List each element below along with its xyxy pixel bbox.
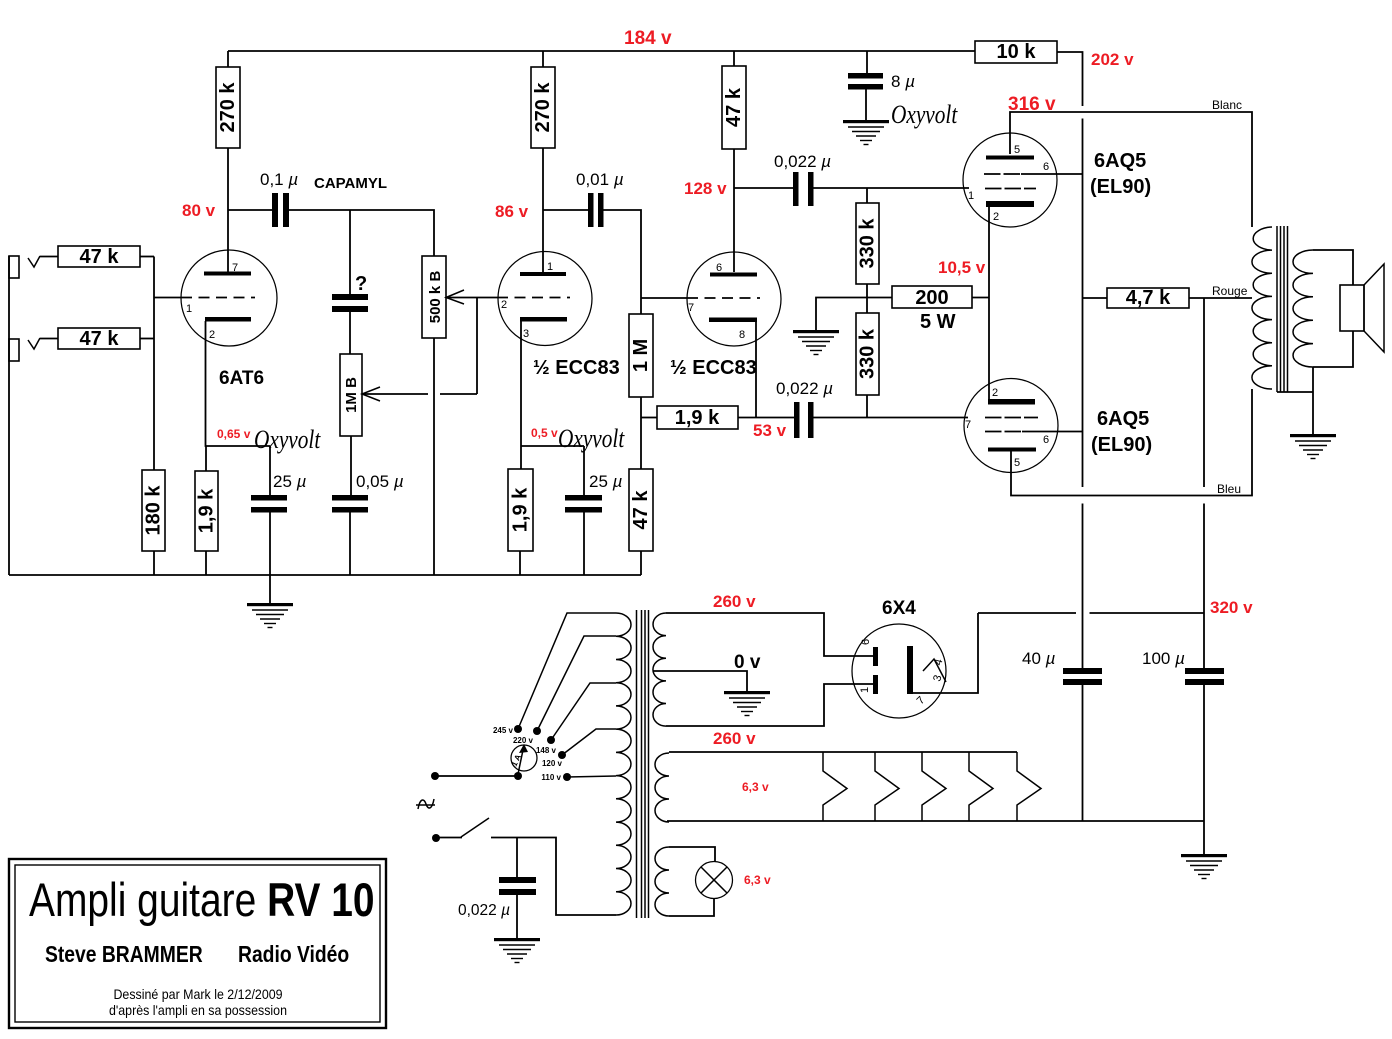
ground bias [793, 330, 839, 355]
svg-text:6: 6 [1043, 434, 1049, 446]
wire J2 to R3 [40, 338, 58, 340]
wire R15 to screen rail [1057, 52, 1083, 106]
wiper arrow P1 [446, 290, 464, 304]
svg-text:0,01 µ: 0,01 µ [576, 170, 624, 189]
plate V4 [986, 156, 1034, 160]
wire bias ground link [816, 298, 892, 331]
svg-text:1: 1 [968, 190, 974, 202]
svg-text:6,3 v: 6,3 v [742, 780, 769, 794]
cathode V6 [907, 646, 913, 694]
wire R10 to 53v node [738, 417, 794, 419]
ground output transformer [1290, 434, 1336, 459]
wire HV top 260v to 6X4 plate [666, 613, 873, 656]
svg-text:0,022 µ: 0,022 µ [774, 152, 831, 171]
svg-text:2: 2 [992, 387, 998, 399]
wire screen rail [1082, 119, 1084, 488]
tube V5 6AQ5 lower [964, 379, 1058, 473]
svg-text:0,1 µ: 0,1 µ [260, 170, 298, 189]
wire lamp top [669, 847, 715, 862]
svg-text:25 µ: 25 µ [589, 472, 623, 491]
svg-text:1M B: 1M B [343, 377, 360, 413]
svg-text:0,05 µ: 0,05 µ [356, 472, 404, 491]
svg-text:53 v: 53 v [753, 421, 787, 440]
wire V3 plate to 128v node [733, 149, 735, 272]
svg-text:1: 1 [547, 261, 553, 273]
svg-text:Ampli guitare RV 10: Ampli guitare RV 10 [29, 874, 375, 926]
capacitor C12 0,022u mains [516, 838, 518, 878]
wiper arrow P2 [362, 387, 380, 401]
svg-text:245 v: 245 v [493, 726, 514, 735]
heater arrow 1 [823, 752, 847, 821]
wire plate V1 to 80v node [227, 148, 229, 272]
svg-text:100 µ: 100 µ [1142, 649, 1185, 668]
wire C1 output to 500k pot top [289, 210, 434, 256]
svg-text:2: 2 [209, 329, 215, 341]
cathode V3 [709, 318, 757, 323]
wire heater rail top [669, 751, 1017, 753]
potentiometer P1 500k B volume [422, 256, 446, 338]
svg-text:0,022 µ: 0,022 µ [776, 379, 833, 398]
svg-text:8 µ: 8 µ [891, 72, 915, 91]
resistor R13 330k grid leak V5 [856, 313, 879, 395]
svg-text:1,9 k: 1,9 k [675, 407, 720, 429]
wire mains line [435, 775, 518, 777]
wire plate V2 to 86v node [542, 148, 544, 272]
transformer T1 pilot lamp winding [655, 847, 669, 916]
svg-text:½ ECC83: ½ ECC83 [670, 357, 757, 379]
grid V3 dashed [687, 297, 760, 299]
svg-text:3: 3 [523, 328, 529, 340]
svg-text:200: 200 [915, 287, 948, 309]
svg-text:0,5 v: 0,5 v [531, 426, 558, 440]
pilot lamp LP1 [696, 862, 733, 899]
wire switch to primary bottom [491, 838, 616, 916]
svg-text:Oxyvolt: Oxyvolt [891, 101, 959, 129]
capacitor C5 0,01u coupling [543, 209, 588, 211]
ground C9 [865, 89, 867, 120]
svg-text:330 k: 330 k [857, 328, 879, 379]
svg-text:Rouge: Rouge [1212, 284, 1248, 298]
resistor R14 200 ohm 5W cathode [892, 286, 972, 308]
svg-text:1 M: 1 M [630, 339, 652, 372]
svg-text:8: 8 [739, 329, 745, 341]
tube V6 6X4 rectifier [852, 624, 946, 718]
heater arrow 4 [969, 752, 993, 821]
resistor R12 330k grid leak V4 [866, 188, 868, 203]
resistor R4 180k grid leak [142, 470, 165, 551]
wire tap 120v [562, 729, 616, 755]
svg-text:6: 6 [1043, 161, 1049, 173]
svg-text:270 k: 270 k [532, 82, 554, 133]
svg-text:1: 1 [859, 687, 871, 693]
wire R16 to Rouge center tap [1189, 297, 1252, 299]
wire tap 110v [567, 776, 616, 777]
grid V2 dashed [497, 297, 570, 299]
tube V2 half ECC83 [498, 252, 592, 346]
svg-text:1,9 k: 1,9 k [510, 487, 532, 532]
svg-text:202 v: 202 v [1091, 50, 1134, 69]
AC source symbol [416, 804, 435, 806]
wire secondary to speaker [1313, 250, 1353, 285]
svg-text:Dessiné par Mark le 2/12/2009: Dessiné par Mark le 2/12/2009 [113, 987, 282, 1003]
wire C8 to V4 grid [814, 187, 970, 189]
resistor R2 47k grid stopper [58, 246, 140, 267]
resistor R11 47k plate resistor V3 [733, 51, 735, 66]
svg-text:Oxyvolt: Oxyvolt [254, 426, 322, 454]
transformer T2 secondary [1293, 250, 1313, 367]
svg-text:Blanc: Blanc [1212, 98, 1242, 112]
heater V6 [923, 659, 946, 682]
svg-text:Bleu: Bleu [1217, 482, 1241, 496]
svg-text:47 k: 47 k [723, 87, 745, 127]
capacitor C1 0,1u CAPAMYL coupling [228, 209, 272, 211]
svg-text:10,5 v: 10,5 v [938, 258, 986, 277]
svg-text:½ ECC83: ½ ECC83 [533, 357, 620, 379]
capacitor C6 25u cathode bypass [583, 446, 585, 495]
svg-text:6AQ5: 6AQ5 [1094, 150, 1146, 172]
resistor R1 270k plate resistor V1 [227, 51, 229, 67]
svg-text:220 v: 220 v [513, 736, 534, 745]
wire grid junction line [153, 257, 155, 471]
transformer T1 core [636, 610, 638, 918]
resistor R9 47k cathode V3 [629, 469, 653, 551]
grid V5 dashed [985, 417, 1038, 419]
cathode V2 [520, 317, 567, 322]
svg-text:330 k: 330 k [857, 218, 879, 269]
svg-text:260 v: 260 v [713, 592, 756, 611]
fuse selector 1A [511, 745, 537, 771]
wire tap 148v [551, 683, 616, 740]
svg-text:6: 6 [860, 639, 872, 645]
svg-text:7: 7 [965, 419, 971, 431]
resistor R8 1M grid leak V3 [629, 314, 653, 397]
cathode V1 [205, 317, 251, 322]
svg-text:260 v: 260 v [713, 729, 756, 748]
tube V4 6AQ5 upper [963, 133, 1057, 227]
jack J2 input sleeve [9, 339, 19, 361]
svg-text:Oxyvolt: Oxyvolt [558, 425, 626, 453]
screen V5 dashed [985, 431, 1022, 433]
wire grid to V1 [154, 297, 181, 299]
svg-text:5: 5 [1014, 457, 1020, 469]
plate V3 [710, 273, 757, 277]
heater arrow 3 [922, 752, 946, 821]
wire HV center tap 0v [653, 671, 747, 691]
plate V5 [988, 448, 1036, 452]
wire V3 cathode to 53v [755, 322, 757, 418]
svg-text:10 k: 10 k [997, 41, 1037, 63]
ground preamp bus [269, 575, 271, 603]
svg-text:1,9 k: 1,9 k [196, 488, 218, 533]
wire P2 wiper to grid node [362, 393, 428, 395]
svg-text:?: ? [355, 273, 367, 295]
svg-text:6: 6 [716, 262, 722, 274]
svg-text:6,3 v: 6,3 v [744, 873, 771, 887]
svg-text:47 k: 47 k [80, 246, 120, 268]
svg-text:320 v: 320 v [1210, 598, 1253, 617]
svg-text:86 v: 86 v [495, 202, 529, 221]
wire C5 to V3 grid node [604, 210, 642, 314]
wire P1 bottom to ground bus [433, 338, 435, 575]
svg-text:148 v: 148 v [536, 746, 557, 755]
wire tap 245v [518, 613, 616, 729]
grid V1 dashed [181, 297, 255, 299]
svg-text:270 k: 270 k [217, 82, 239, 133]
svg-text:2: 2 [993, 211, 999, 223]
svg-text:7: 7 [232, 262, 238, 274]
wire 320v line [978, 612, 1076, 614]
svg-text:0,65 v: 0,65 v [217, 427, 251, 441]
wire R3 to grid node [140, 338, 154, 340]
wire P2 bottom to 0,05u [350, 436, 352, 495]
plate 1 V6 [873, 647, 878, 666]
wire Rouge to 320v [1203, 298, 1205, 487]
jack J1 input sleeve [9, 256, 19, 278]
jack J2 tip contact [28, 338, 40, 349]
svg-text:500 k B: 500 k B [427, 271, 444, 324]
heater arrow 5 [1017, 752, 1041, 821]
jack J1 tip contact [28, 256, 40, 267]
transformer T2 output primary [1252, 227, 1272, 389]
transformer T1 HV secondary [653, 613, 666, 726]
cathode V5 [988, 399, 1035, 405]
wire tap 220v [537, 636, 616, 731]
svg-text:6AT6: 6AT6 [219, 368, 264, 389]
svg-text:0 v: 0 v [734, 652, 761, 673]
ground C12 [516, 895, 518, 938]
potentiometer P2 1M B tone [340, 354, 362, 436]
tube V3 half ECC83 phase splitter [687, 252, 781, 346]
plate 2 V6 [873, 675, 878, 694]
ground HV center tap [724, 691, 770, 716]
wire R8 bottom junction [640, 397, 642, 469]
svg-text:80 v: 80 v [182, 201, 216, 220]
svg-text:180 k: 180 k [143, 485, 165, 536]
cathode V4 [986, 201, 1034, 207]
wire R2 to grid node [140, 256, 154, 258]
svg-text:(EL90): (EL90) [1090, 176, 1151, 198]
capacitor C8 0,022u coupling upper [734, 187, 793, 189]
resistor R7 1,9k cathode [508, 469, 533, 551]
wire V1 cathode [206, 321, 271, 446]
wire R14 to cathodes [972, 297, 989, 299]
wire input ground rail [8, 256, 10, 575]
svg-text:0,022 µ: 0,022 µ [458, 902, 510, 919]
svg-text:7: 7 [688, 302, 694, 314]
plate V2 [520, 272, 566, 276]
svg-text:184 v: 184 v [624, 28, 672, 49]
wire B+ 184v rail [228, 50, 975, 52]
svg-text:6AQ5: 6AQ5 [1097, 408, 1149, 430]
wire screen V4 to rail [1021, 173, 1083, 175]
wire HV bottom 260v to 6X4 plate [666, 684, 873, 726]
svg-text:4,7 k: 4,7 k [1126, 287, 1171, 309]
svg-text:(EL90): (EL90) [1091, 434, 1152, 456]
capacitor C7 0,022u coupling lower [794, 402, 800, 438]
wire cathode rail V4 V5 [988, 205, 990, 399]
transformer T1 heater 6,3v winding [655, 753, 669, 822]
svg-text:Radio Vidéo: Radio Vidéo [238, 943, 349, 968]
resistor R15 10k screen feed [975, 41, 1057, 63]
wire lamp bottom [669, 899, 714, 917]
wire V6 cathode to 320v [913, 613, 978, 693]
transformer T1 power primary [616, 613, 631, 915]
screen V4 dashed [984, 173, 1021, 175]
capacitor C10 40u filter [1063, 668, 1102, 674]
wire C7 to V5 grid [814, 417, 969, 419]
wire ground bus preamp [9, 574, 641, 576]
wire Blanc plate V4 [1010, 112, 1252, 227]
resistor R16 4,7k screen dropper [1083, 297, 1108, 299]
svg-text:6X4: 6X4 [882, 598, 916, 619]
wire V2 cathode [520, 321, 522, 469]
capacitor C11 100u filter [1185, 668, 1224, 674]
switch S1 [432, 834, 440, 842]
resistor R5 1,9k cathode [205, 446, 207, 471]
capacitor C3 0,05u [332, 495, 368, 501]
wire P1 wiper to V2 grid [446, 297, 497, 299]
svg-text:d'après l'ampli en sa possessi: d'après l'ampli en sa possession [109, 1003, 287, 1019]
resistor R6 270k plate resistor V2 [542, 51, 544, 67]
title block outer frame [9, 859, 386, 1028]
title block inner frame [15, 865, 380, 1022]
capacitor C4 25u cathode bypass [269, 446, 271, 495]
svg-text:120 v: 120 v [542, 759, 563, 768]
capacitor C2 ? tone cap [349, 210, 351, 294]
grid V4 dashed [985, 188, 1036, 190]
wire grid tap to V3 [641, 297, 687, 299]
speaker LS1 [1340, 285, 1364, 331]
ground main filter [1203, 821, 1205, 854]
svg-text:1: 1 [186, 303, 192, 315]
wire J1 to R2 [40, 256, 58, 258]
svg-text:5 W: 5 W [920, 311, 956, 333]
svg-text:40 µ: 40 µ [1022, 649, 1056, 668]
wire screen V5 to rail [1022, 431, 1083, 433]
wire supply ground bus [667, 820, 1204, 822]
svg-text:5: 5 [1014, 144, 1020, 156]
capacitor C9 8u filter [866, 51, 868, 73]
wire Bleu plate V5 [1011, 389, 1252, 496]
wire R12 to R13 [866, 284, 868, 313]
heater arrow 2 [875, 752, 899, 821]
tube V1 6AT6 [181, 250, 277, 346]
resistor R3 47k grid stopper [58, 328, 140, 349]
svg-text:47 k: 47 k [80, 328, 120, 350]
wire secondary ground [1312, 367, 1314, 434]
transformer T2 core [1276, 226, 1278, 392]
svg-text:Steve BRAMMER: Steve BRAMMER [45, 943, 203, 968]
svg-text:47 k: 47 k [630, 490, 652, 530]
svg-text:CAPAMYL: CAPAMYL [314, 175, 387, 192]
svg-text:2: 2 [501, 299, 507, 311]
svg-text:128 v: 128 v [684, 179, 727, 198]
plate V1 [204, 272, 251, 276]
svg-text:25 µ: 25 µ [273, 472, 307, 491]
resistor R10 1,9k tail [657, 406, 738, 429]
svg-text:110 v: 110 v [541, 773, 561, 782]
